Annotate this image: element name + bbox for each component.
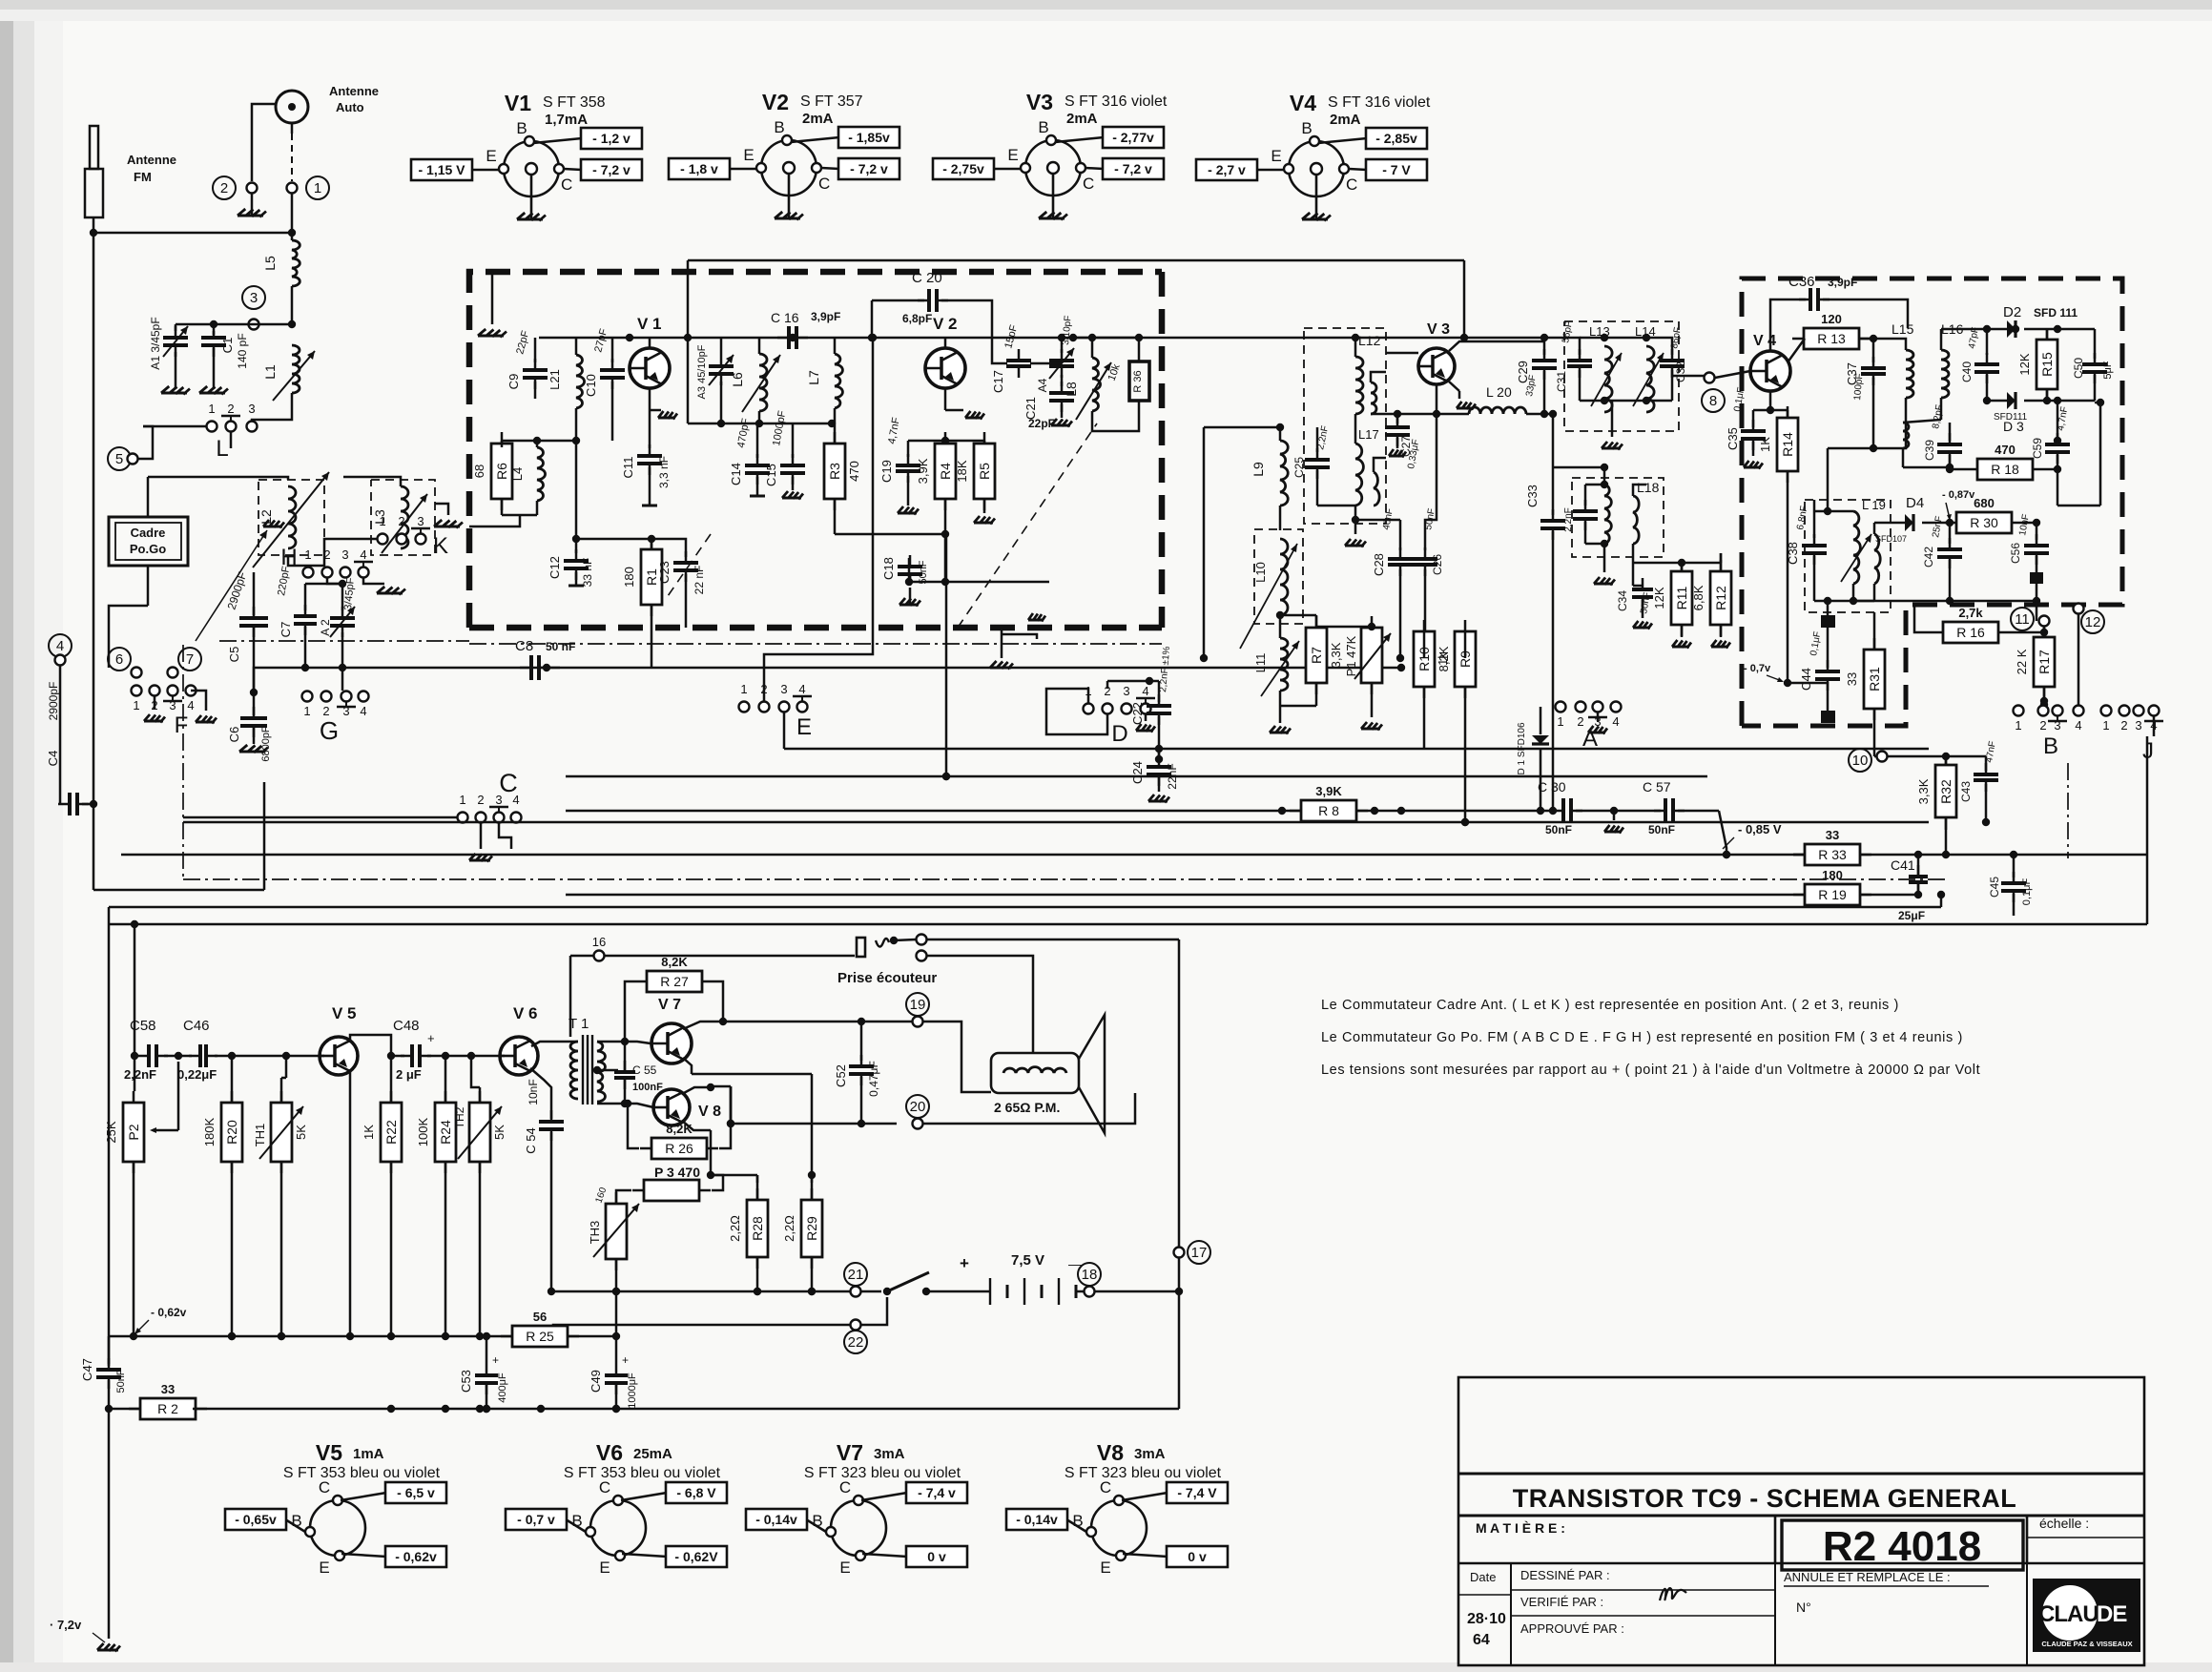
wire top bypass E <box>764 334 877 701</box>
transistor V1 voltage detail <box>411 91 642 221</box>
svg-text:C5: C5 <box>227 647 241 663</box>
dashed box L12/L17 <box>1304 328 1386 524</box>
resistor R8 <box>1290 784 1368 821</box>
coil L18a <box>1601 464 1612 547</box>
svg-text:4: 4 <box>1612 714 1619 729</box>
svg-text:- 0,87v: - 0,87v <box>1942 489 1975 501</box>
wire speaker top <box>723 1018 912 1025</box>
dashdot B down <box>2067 763 2069 858</box>
svg-text:25μF: 25μF <box>1898 909 1925 922</box>
resistor R26 <box>624 1086 731 1159</box>
svg-text:R 18: R 18 <box>1991 462 2019 477</box>
capacitor C55 <box>614 1042 663 1104</box>
audio bus 969 <box>109 855 2147 924</box>
svg-text:5μF: 5μF <box>2102 361 2114 379</box>
svg-text:- 2,7 v: - 2,7 v <box>1208 162 1246 177</box>
diode D3 SFD111 <box>1987 392 2061 434</box>
potentiometer P1 <box>1344 616 1391 731</box>
ground under node 2 <box>238 194 266 217</box>
wire H2-C7 bus <box>305 578 346 588</box>
title block <box>1458 1377 2144 1665</box>
svg-text:C7: C7 <box>279 622 293 638</box>
svg-text:C11: C11 <box>621 457 635 479</box>
resistor R10 <box>1414 620 1451 749</box>
capacitor C44 <box>1799 628 1840 723</box>
capacitor C26 50nF <box>1413 414 1444 662</box>
capacitor C1 <box>201 326 249 389</box>
wire antenna to bus <box>291 194 294 233</box>
wire -085 junction <box>1719 811 1782 858</box>
resistor R32 <box>1916 753 1956 858</box>
antenna FM label <box>127 153 176 184</box>
svg-text:1k: 1k <box>1436 652 1450 666</box>
svg-text:0,1μF: 0,1μF <box>2021 878 2033 906</box>
svg-text:180K: 180K <box>202 1117 217 1146</box>
wire L14 to V4 area <box>1672 375 1707 378</box>
svg-text:C 30: C 30 <box>1538 779 1566 795</box>
svg-text:· 7,2v: · 7,2v <box>50 1618 82 1632</box>
capacitor C37 <box>1845 339 1886 452</box>
V5 leads <box>320 1035 391 1340</box>
circ 16 <box>592 935 606 961</box>
dash-dot long <box>183 878 1946 880</box>
svg-text:3,3K: 3,3K <box>1329 642 1343 668</box>
resistor R9 <box>1436 620 1476 826</box>
svg-text:C33: C33 <box>1525 485 1540 507</box>
wire E3 down <box>783 712 786 749</box>
svg-text:R 2: R 2 <box>157 1401 178 1416</box>
resistor R4 <box>916 432 956 582</box>
svg-text:0 v: 0 v <box>927 1549 946 1564</box>
capacitor C4 <box>46 666 97 815</box>
svg-text:C32: C32 <box>1674 361 1687 382</box>
resistor R30 <box>1945 496 2040 533</box>
svg-text:R15: R15 <box>2039 352 2055 377</box>
capacitor C35 <box>1726 386 1774 468</box>
capacitor C38 <box>1786 505 1853 601</box>
svg-text:C31: C31 <box>1555 371 1568 392</box>
svg-text:R 27: R 27 <box>660 974 689 989</box>
wire C59 down <box>2057 399 2104 506</box>
svg-text:D4: D4 <box>1906 495 1924 511</box>
bus y862 <box>183 818 1929 826</box>
svg-text:C59: C59 <box>2031 438 2044 459</box>
svg-text:C26: C26 <box>1431 554 1444 575</box>
svg-text:C41: C41 <box>1891 857 1915 873</box>
battery bus <box>551 1288 850 1295</box>
switch L <box>143 402 292 462</box>
capacitor C31 <box>1555 320 1592 401</box>
audio left lower <box>108 1336 111 1364</box>
svg-text:R12: R12 <box>1713 586 1728 610</box>
wire R13 right <box>1859 335 1877 342</box>
ground right of F <box>191 691 217 724</box>
wire L13 box bottom <box>1580 397 1672 450</box>
svg-text:V 1: V 1 <box>637 315 662 333</box>
svg-text:P1 47K: P1 47K <box>1344 635 1358 676</box>
svg-text:R29: R29 <box>804 1216 819 1241</box>
wire C42 bottom bus <box>1850 584 2040 621</box>
svg-text:V2: V2 <box>762 90 789 114</box>
audio left edge <box>108 907 111 1336</box>
svg-text:D: D <box>1111 721 1127 747</box>
svg-text:L12: L12 <box>1358 333 1381 348</box>
svg-text:4: 4 <box>360 547 366 562</box>
svg-text:C48: C48 <box>393 1018 420 1034</box>
coil L8 osc <box>1064 334 1139 431</box>
svg-text:A4: A4 <box>1036 378 1049 392</box>
capacitor C21 22pF <box>1023 375 1074 430</box>
ground under C1 <box>199 386 228 395</box>
svg-text:11: 11 <box>2015 611 2030 628</box>
svg-text:2 μF: 2 μF <box>396 1067 422 1082</box>
circ 22 <box>549 1297 887 1353</box>
svg-text:4: 4 <box>798 682 805 696</box>
bus y850 <box>566 807 1553 815</box>
capacitor C8 50nF <box>515 638 575 680</box>
transistor V6 circuit <box>500 1004 538 1075</box>
node 4 contact <box>49 634 72 666</box>
capacitor C58 <box>124 1018 192 1082</box>
svg-text:1: 1 <box>379 514 385 528</box>
svg-text:R22: R22 <box>383 1120 399 1145</box>
capacitor C24 <box>1130 755 1179 803</box>
svg-text:R17: R17 <box>2036 650 2052 674</box>
svg-text:5: 5 <box>115 451 123 467</box>
svg-text:V 7: V 7 <box>658 997 681 1013</box>
trimmer A3 <box>696 338 734 423</box>
node 1 contact <box>287 176 330 199</box>
svg-text:C: C <box>818 175 830 193</box>
dashed box L18 <box>1572 478 1664 557</box>
svg-text:1,7mA: 1,7mA <box>545 112 588 128</box>
wire speaker bottom <box>727 1087 897 1127</box>
ground L18 <box>1594 544 1615 586</box>
V7 collector <box>683 1018 727 1029</box>
node 8 contact <box>1702 371 1750 412</box>
svg-text:6800pF: 6800pF <box>260 726 272 762</box>
wire d3 node down <box>2054 401 2061 444</box>
svg-text:E: E <box>599 1558 610 1577</box>
svg-text:V6: V6 <box>596 1440 623 1465</box>
switch C <box>183 769 522 862</box>
node 5 contact <box>108 426 153 470</box>
svg-text:C12: C12 <box>548 556 562 579</box>
resistor R22 <box>362 1056 402 1340</box>
svg-text:- 1,8 v: - 1,8 v <box>680 161 718 176</box>
vertical 1236 <box>1178 939 1181 1409</box>
capacitor C9 22pF <box>506 329 548 399</box>
coil L16b <box>1903 420 1954 471</box>
svg-text:DESSINÉ PAR :: DESSINÉ PAR : <box>1520 1568 1610 1582</box>
svg-text:C15: C15 <box>764 464 778 486</box>
audio top edge <box>109 891 1945 907</box>
bus R8 detail <box>1278 807 1378 815</box>
svg-text:C34: C34 <box>1616 590 1629 611</box>
resistor R25 <box>0 0 1 1</box>
svg-text:R4: R4 <box>938 463 953 480</box>
svg-text:- 6,5 v: - 6,5 v <box>397 1485 435 1500</box>
capacitor C7 220pF <box>276 565 317 668</box>
ground blob L19 <box>1821 597 1835 628</box>
svg-text:3: 3 <box>341 547 348 562</box>
svg-text:100K: 100K <box>416 1117 430 1146</box>
svg-text:12K: 12K <box>1652 587 1666 609</box>
svg-text:L18: L18 <box>1637 480 1660 495</box>
capacitor C46 <box>177 1018 320 1082</box>
wire left down to C4 <box>93 233 95 890</box>
capacitor C39 <box>1923 403 1962 469</box>
svg-text:A1 3/45pF: A1 3/45pF <box>149 317 162 369</box>
svg-text:2,2nF: 2,2nF <box>1563 507 1574 532</box>
svg-text:1: 1 <box>459 793 465 807</box>
svg-text:R20: R20 <box>224 1120 239 1145</box>
svg-text:C46: C46 <box>183 1018 210 1034</box>
svg-text:V 8: V 8 <box>698 1104 721 1120</box>
svg-text:3,9K: 3,9K <box>916 458 930 484</box>
circ 17 <box>1174 1241 1211 1264</box>
svg-text:3: 3 <box>417 514 424 528</box>
capacitor C17 15pF <box>991 323 1047 393</box>
svg-text:C45: C45 <box>1988 877 2001 898</box>
dashed box L10 <box>1254 529 1303 624</box>
svg-text:B: B <box>1038 118 1048 136</box>
wire L13 box top <box>1544 334 1672 343</box>
svg-text:E: E <box>486 147 496 165</box>
svg-text:A 2: A 2 <box>319 619 332 636</box>
svg-text:L4: L4 <box>510 467 525 481</box>
cadre Po.Go box <box>109 517 188 566</box>
antenna auto label <box>329 84 379 114</box>
svg-text:18K: 18K <box>955 460 969 482</box>
capacitor C32 <box>1660 326 1687 401</box>
resistor R15 <box>2017 328 2057 404</box>
diode D1 <box>1517 707 1549 815</box>
svg-text:E: E <box>1100 1558 1110 1577</box>
switch E <box>739 682 813 740</box>
svg-text:T 1: T 1 <box>569 1016 589 1032</box>
resistor R31 <box>1845 612 1885 753</box>
ground under F2 <box>144 696 165 723</box>
svg-text:470: 470 <box>1995 443 2016 457</box>
transistor V5 circuit <box>320 1004 358 1075</box>
svg-text:+: + <box>427 1031 435 1045</box>
svg-text:- 1,15 V: - 1,15 V <box>418 162 465 177</box>
svg-text:3: 3 <box>2135 718 2141 733</box>
svg-text:C 20: C 20 <box>912 270 942 286</box>
svg-text:C44: C44 <box>1799 668 1813 691</box>
svg-text:L1: L1 <box>262 364 278 380</box>
svg-text:- 7,2 v: - 7,2 v <box>592 162 631 177</box>
wire v1 stage top <box>539 334 1168 341</box>
svg-text:C1: C1 <box>220 338 235 354</box>
label 27k <box>0 0 1 1</box>
thermistor TH2 <box>453 1052 506 1340</box>
transistor V8 voltage detail <box>1006 1440 1228 1577</box>
R25 joined <box>0 0 1 1</box>
svg-text:A3 45/10pF: A3 45/10pF <box>696 344 708 399</box>
svg-text:1mA: 1mA <box>353 1446 384 1462</box>
bus y785 <box>784 745 1929 753</box>
svg-text:100nF: 100nF <box>632 1082 663 1093</box>
svg-text:2,2nF: 2,2nF <box>124 1067 156 1082</box>
svg-text:6,8K: 6,8K <box>1691 585 1706 610</box>
svg-text:R3: R3 <box>827 463 842 480</box>
capacitor C29 <box>1516 338 1557 414</box>
capacitor C59 <box>2031 405 2070 473</box>
wire 16 to jack <box>570 956 855 1037</box>
svg-text:400μF: 400μF <box>497 1373 508 1403</box>
bottom bus R2 <box>109 1382 1179 1419</box>
svg-text:R 33: R 33 <box>1818 847 1847 862</box>
resistor R17 <box>2015 626 2055 709</box>
svg-text:S FT 316 violet: S FT 316 violet <box>1328 94 1431 111</box>
wire G to C8 <box>342 664 560 671</box>
svg-text:S FT 358: S FT 358 <box>543 94 606 111</box>
svg-text:0,47μF: 0,47μF <box>867 1061 880 1097</box>
coil L19b <box>1853 523 1880 601</box>
gang line F <box>196 520 284 641</box>
svg-text:S FT 316 violet: S FT 316 violet <box>1065 93 1168 110</box>
svg-text:CLAUDE PAZ & VISSEAUX: CLAUDE PAZ & VISSEAUX <box>2041 1640 2132 1648</box>
V8 collector wire <box>711 1086 734 1127</box>
svg-text:8: 8 <box>1709 393 1717 409</box>
svg-text:2: 2 <box>2120 718 2127 733</box>
svg-text:V4: V4 <box>1290 91 1316 115</box>
svg-text:L 20: L 20 <box>1486 384 1512 400</box>
capacitor C23 22nF <box>651 539 706 628</box>
svg-text:680: 680 <box>1974 496 1995 510</box>
switch A <box>1556 702 1622 753</box>
coil L14 <box>1633 324 1664 412</box>
svg-text:180: 180 <box>622 567 636 588</box>
svg-text:- 1,85v: - 1,85v <box>848 130 890 145</box>
wire above box <box>688 260 1464 423</box>
node 7 contact <box>168 648 202 678</box>
svg-text:16: 16 <box>592 935 606 949</box>
svg-text:Auto: Auto <box>336 100 364 114</box>
svg-text:B: B <box>516 119 527 137</box>
svg-text:1: 1 <box>208 402 215 416</box>
potentiometer P3 <box>616 1165 723 1204</box>
FM tuner dashed box <box>469 272 1162 628</box>
svg-text:C38: C38 <box>1786 542 1800 565</box>
circ 21 <box>844 1263 867 1297</box>
svg-text:L10: L10 <box>1253 562 1268 583</box>
svg-text:470: 470 <box>847 461 861 482</box>
capacitor C22 <box>1130 646 1172 759</box>
svg-text:3mA: 3mA <box>1134 1446 1166 1462</box>
svg-text:1: 1 <box>2015 718 2021 733</box>
capacitor C15 1000pF <box>764 409 805 499</box>
svg-text:10nF: 10nF <box>527 1079 540 1104</box>
svg-text:- 0,14v: - 0,14v <box>1016 1512 1058 1527</box>
svg-text:5K: 5K <box>492 1125 506 1140</box>
wire antenna bus <box>90 229 296 237</box>
svg-text:R 13: R 13 <box>1817 331 1846 346</box>
resistor R13 <box>1788 312 1871 362</box>
dashed box L2 <box>258 480 324 555</box>
capacitor C14 470pF <box>729 417 770 496</box>
svg-text:1: 1 <box>133 698 139 712</box>
svg-text:C9: C9 <box>506 374 521 390</box>
transformer T1 core <box>569 1016 592 1104</box>
node 6 contact <box>108 648 142 678</box>
svg-text:0,22μF: 0,22μF <box>177 1067 217 1082</box>
svg-text:5K: 5K <box>294 1125 308 1140</box>
svg-text:F: F <box>175 712 189 738</box>
svg-text:22: 22 <box>848 1334 864 1351</box>
svg-text:C35: C35 <box>1726 427 1740 450</box>
svg-text:6,8pF: 6,8pF <box>902 312 932 325</box>
svg-text:S FT 323 bleu ou violet: S FT 323 bleu ou violet <box>1065 1465 1222 1481</box>
svg-text:- 7 V: - 7 V <box>1382 162 1411 177</box>
svg-text:Le Commutateur Cadre Ant.: Le Commutateur Cadre Ant. ( L et K ) est… <box>1321 998 1899 1013</box>
wire D to C22 <box>1107 681 1149 689</box>
svg-text:Le Commutateur Go Po. FM: Le Commutateur Go Po. FM ( A B C D E . F… <box>1321 1030 1963 1045</box>
coil L19 <box>1841 498 1886 601</box>
svg-text:- 2,77v: - 2,77v <box>1112 130 1154 145</box>
capacitor C40 <box>1960 325 1999 404</box>
prise ecouteur label <box>837 970 937 986</box>
svg-text:C53: C53 <box>459 1370 473 1393</box>
svg-text:Antenne: Antenne <box>127 153 176 167</box>
svg-text:R24: R24 <box>438 1120 453 1145</box>
coil L9 <box>1251 427 1288 530</box>
svg-text:- 0,85 V: - 0,85 V <box>1738 822 1782 836</box>
vertical C33 <box>1525 410 1565 811</box>
svg-text:3mA: 3mA <box>874 1446 905 1462</box>
svg-text:C: C <box>1083 175 1094 193</box>
transistor V5 voltage detail <box>225 1440 446 1577</box>
trimmer A1 <box>149 317 188 389</box>
svg-text:Prise écouteur: Prise écouteur <box>837 970 937 986</box>
svg-text:R5: R5 <box>977 463 992 480</box>
svg-text:R28: R28 <box>750 1216 765 1241</box>
svg-text:C50: C50 <box>2072 358 2085 379</box>
svg-text:E: E <box>796 714 812 740</box>
resistor R12 <box>1691 553 1731 649</box>
svg-text:V 2: V 2 <box>933 315 958 333</box>
svg-text:22 nF: 22 nF <box>693 566 706 595</box>
svg-text:Cadre: Cadre <box>131 526 166 540</box>
thermistor TH3 <box>588 1186 639 1295</box>
wire C4 down <box>93 889 264 892</box>
resistor R11 <box>1652 560 1692 649</box>
svg-text:TH1: TH1 <box>253 1124 267 1147</box>
svg-text:4: 4 <box>56 638 64 654</box>
wires cadre <box>109 477 288 668</box>
svg-text:3,9K: 3,9K <box>1315 784 1342 798</box>
svg-text:- 7,2 v: - 7,2 v <box>850 161 888 176</box>
svg-text:1K: 1K <box>1758 437 1772 452</box>
bus y814 <box>566 773 1707 780</box>
svg-text:C49: C49 <box>589 1370 603 1393</box>
potentiometer P2 <box>104 1062 178 1340</box>
svg-text:6: 6 <box>115 651 123 668</box>
capacitor C11 <box>621 410 671 506</box>
svg-text:4: 4 <box>1142 684 1148 698</box>
svg-text:R32: R32 <box>1938 779 1954 804</box>
svg-text:Po.Go: Po.Go <box>130 542 166 556</box>
capacitor C25 <box>1292 424 1355 506</box>
transformer T1 primary <box>570 1042 578 1099</box>
capacitor C28 40nF <box>1355 507 1413 662</box>
wire C22 bus <box>1158 749 1161 759</box>
svg-text:C36: C36 <box>1788 274 1815 290</box>
coil L11 <box>1253 615 1299 734</box>
svg-text:64: 64 <box>1473 1632 1490 1648</box>
